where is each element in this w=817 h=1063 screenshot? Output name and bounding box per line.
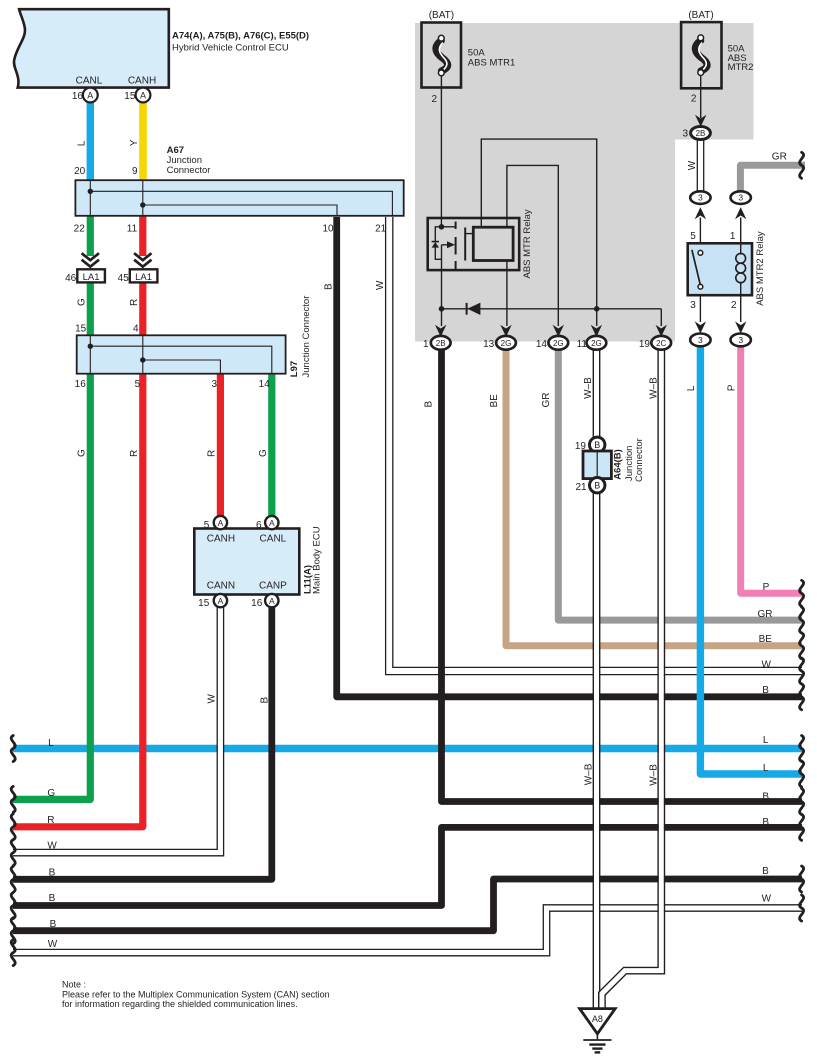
svg-text:CANH: CANH xyxy=(207,534,235,545)
svg-text:2G: 2G xyxy=(553,339,564,348)
svg-text:14: 14 xyxy=(259,379,271,390)
svg-text:CANP: CANP xyxy=(259,580,287,591)
svg-text:CANL: CANL xyxy=(76,75,103,86)
svg-text:G: G xyxy=(77,449,88,457)
svg-text:W–B: W–B xyxy=(648,377,659,399)
wire Y yellow: ECU CANH pin to A67 xyxy=(139,101,147,183)
svg-text:A: A xyxy=(140,90,146,100)
svg-text:A: A xyxy=(218,518,224,528)
svg-text:B: B xyxy=(260,697,271,704)
ABS MTR Relay box xyxy=(428,218,520,270)
svg-text:13: 13 xyxy=(483,339,495,350)
svg-text:(BAT): (BAT) xyxy=(429,10,454,21)
svg-text:R: R xyxy=(207,450,218,457)
connector oval 3 (right, under GR) xyxy=(731,191,751,204)
wire W white: L11 CANN pin down to left bus xyxy=(13,607,220,852)
svg-text:BE: BE xyxy=(759,634,773,645)
svg-text:21: 21 xyxy=(575,482,587,493)
svg-text:LA1: LA1 xyxy=(83,272,100,283)
svg-text:16: 16 xyxy=(251,598,263,609)
svg-text:W: W xyxy=(761,660,771,671)
arrows down into ovals 3 xyxy=(695,321,706,333)
wire B black: L11 CANP pin down to left bus xyxy=(13,607,272,879)
wire R red: LA1 to L97 pin4 xyxy=(139,283,146,338)
connector oval 3 (L output) xyxy=(690,334,710,347)
main body ECU L11(A) box xyxy=(194,529,299,595)
svg-text:5: 5 xyxy=(135,379,141,390)
connector 3 2B oval xyxy=(691,127,711,140)
svg-text:2B: 2B xyxy=(696,129,706,138)
svg-text:2: 2 xyxy=(731,300,737,311)
wire W white: A67 pin21 down then right bus xyxy=(389,217,802,671)
wire W-B: connector 19 2C down, jog left to ground xyxy=(602,350,661,1009)
svg-text:R: R xyxy=(129,299,140,306)
junction connector A67 bar xyxy=(75,180,403,216)
wire W white: left bus via riser to right bus xyxy=(13,908,802,953)
svg-text:BE: BE xyxy=(489,394,500,408)
svg-text:L: L xyxy=(686,385,697,391)
svg-text:3: 3 xyxy=(698,335,703,345)
wire B black: left bus via riser to right bus xyxy=(13,827,802,905)
ground A8 xyxy=(580,1009,616,1034)
svg-text:R: R xyxy=(129,450,140,457)
svg-text:Hybrid Vehicle Control ECU: Hybrid Vehicle Control ECU xyxy=(172,43,289,54)
wire L blue: ECU CANL pin to A67 xyxy=(87,101,94,183)
svg-text:W: W xyxy=(48,939,58,950)
svg-text:B: B xyxy=(424,401,435,408)
svg-text:GR: GR xyxy=(758,609,773,620)
svg-text:ABS MTR1: ABS MTR1 xyxy=(468,57,516,68)
svg-text:3: 3 xyxy=(738,193,743,203)
svg-text:4: 4 xyxy=(133,323,139,334)
svg-text:MTR2: MTR2 xyxy=(728,62,754,73)
wire G green: L97 pin16 down to left bus xyxy=(13,374,90,799)
svg-text:Connector: Connector xyxy=(634,438,645,482)
right edge squiggles xyxy=(800,152,804,921)
diode xyxy=(466,303,468,315)
wire L (blue) full-width horizontal bus xyxy=(13,745,802,752)
pin 16 A xyxy=(83,88,98,103)
svg-text:L: L xyxy=(763,735,769,746)
arrows down into bottom connector ovals xyxy=(435,325,446,337)
wire B black: left bus via riser to right bus 2 xyxy=(13,879,802,931)
connector 1 2B xyxy=(431,336,451,350)
svg-text:B: B xyxy=(762,817,769,828)
relay driver inner box xyxy=(473,227,513,260)
svg-text:W: W xyxy=(206,694,217,704)
svg-text:A74(A), A75(B), A76(C), E55(D): A74(A), A75(B), A76(C), E55(D) xyxy=(172,31,309,42)
svg-text:A: A xyxy=(269,518,275,528)
svg-text:A64(B): A64(B) xyxy=(613,449,624,480)
wire fuse2 down xyxy=(700,75,702,118)
svg-text:B: B xyxy=(594,440,600,450)
svg-text:Connector: Connector xyxy=(167,165,211,176)
svg-text:L: L xyxy=(48,738,54,749)
wire GR gray: connector 14 2G down then right bus xyxy=(558,350,802,620)
relay switch xyxy=(698,250,703,255)
wire B black: connector 1 2B down then right bus xyxy=(442,350,803,802)
connector 19 2C xyxy=(651,336,671,350)
svg-text:W–B: W–B xyxy=(583,763,594,785)
svg-text:14: 14 xyxy=(536,339,548,350)
svg-text:16: 16 xyxy=(72,91,84,102)
svg-text:GR: GR xyxy=(541,393,552,408)
svg-text:ABS MTR2 Relay: ABS MTR2 Relay xyxy=(755,231,766,306)
svg-text:Note :: Note : xyxy=(62,979,86,989)
svg-text:6: 6 xyxy=(256,520,262,531)
svg-text:W: W xyxy=(375,280,386,290)
svg-text:5: 5 xyxy=(690,231,696,242)
svg-text:B: B xyxy=(49,893,56,904)
ABS MTR relay internal wiring xyxy=(481,139,596,326)
svg-text:for information regarding the: for information regarding the shielded c… xyxy=(62,999,298,1009)
svg-text:B: B xyxy=(762,685,769,696)
svg-text:A8: A8 xyxy=(592,1014,603,1024)
shield chevrons 46 LA1 xyxy=(82,253,99,267)
svg-text:2C: 2C xyxy=(656,339,666,348)
shaded relay block region xyxy=(415,23,754,342)
wire GR gray: top right to MTR2 relay connector xyxy=(740,165,805,191)
svg-text:Junction Connector: Junction Connector xyxy=(301,296,312,378)
svg-text:G: G xyxy=(47,788,55,799)
svg-text:15: 15 xyxy=(198,598,210,609)
pin 5 A xyxy=(214,516,227,529)
connector 14 2G xyxy=(548,336,568,350)
svg-text:3: 3 xyxy=(738,335,743,345)
arrows up into ovals 3 xyxy=(695,207,706,219)
svg-text:L: L xyxy=(763,763,769,774)
svg-text:G: G xyxy=(258,449,269,457)
relay coil xyxy=(740,243,742,254)
wire R red: L97 pin3 to L11 CANH xyxy=(217,372,224,517)
svg-text:3: 3 xyxy=(698,193,703,203)
svg-text:CANL: CANL xyxy=(260,534,287,545)
svg-text:3: 3 xyxy=(682,129,688,140)
wire B black: A67 pin10 down then right bus xyxy=(337,217,802,697)
svg-text:W–B: W–B xyxy=(649,764,660,786)
svg-text:2: 2 xyxy=(691,93,697,104)
svg-text:21: 21 xyxy=(375,224,387,235)
svg-text:(BAT): (BAT) xyxy=(688,10,713,21)
svg-text:W: W xyxy=(762,893,772,904)
wire BE tan: connector 13 2G down then right bus xyxy=(506,350,802,646)
svg-text:46: 46 xyxy=(65,273,77,284)
svg-text:2: 2 xyxy=(431,94,437,105)
svg-text:P: P xyxy=(727,384,738,391)
svg-text:B: B xyxy=(324,283,335,290)
junction connector A64(B) xyxy=(590,437,605,452)
connector 13 2G xyxy=(496,336,516,350)
svg-text:B: B xyxy=(762,791,769,802)
connector oval 3 (P output) xyxy=(731,334,751,347)
left edge squiggles xyxy=(11,736,15,966)
svg-text:20: 20 xyxy=(74,166,86,177)
svg-text:Y: Y xyxy=(129,139,140,146)
svg-text:B: B xyxy=(594,481,600,491)
pin 15 A xyxy=(136,88,151,103)
svg-text:ABS MTR Relay: ABS MTR Relay xyxy=(522,209,533,278)
svg-text:GR: GR xyxy=(772,152,787,163)
wire G green: A67 pin22 to LA1 shield xyxy=(87,214,94,256)
svg-text:R: R xyxy=(47,815,54,826)
svg-text:22: 22 xyxy=(74,224,86,235)
svg-text:3: 3 xyxy=(211,379,217,390)
Hybrid Vehicle Control ECU box A74/A75/A76/E55 xyxy=(14,9,169,87)
svg-text:LA1: LA1 xyxy=(135,272,152,283)
svg-text:19: 19 xyxy=(639,339,651,350)
diode bus line xyxy=(442,308,662,310)
wire R red: L97 pin5 down to left bus xyxy=(13,374,143,827)
svg-text:W–B: W–B xyxy=(583,377,594,399)
pin 6 A xyxy=(265,516,278,529)
connector 11 2G xyxy=(587,336,607,350)
svg-text:2G: 2G xyxy=(591,339,602,348)
svg-text:10: 10 xyxy=(322,224,334,235)
arrow into 2B xyxy=(695,115,706,127)
svg-text:G: G xyxy=(77,298,88,306)
pin 15 A xyxy=(214,594,227,607)
wire G green: L97 pin14 to L11 CANL xyxy=(268,372,275,517)
wire L blue: MTR2 relay output down then right bus xyxy=(700,346,802,774)
wire W white: fuse 2B connector down to relay connector 3 xyxy=(698,140,703,192)
svg-text:15: 15 xyxy=(124,91,136,102)
svg-text:A: A xyxy=(87,90,93,100)
svg-text:A: A xyxy=(269,596,275,606)
svg-text:2B: 2B xyxy=(436,339,446,348)
svg-text:9: 9 xyxy=(132,166,138,177)
pin 16 A xyxy=(265,594,278,607)
svg-text:L97: L97 xyxy=(289,361,300,377)
ABS MTR2 relay box xyxy=(688,243,752,295)
svg-text:5: 5 xyxy=(204,520,210,531)
shield chevrons 45 LA1 xyxy=(134,253,151,267)
svg-text:11: 11 xyxy=(127,224,138,235)
svg-text:B: B xyxy=(762,866,769,877)
svg-text:B: B xyxy=(50,919,57,930)
svg-text:15: 15 xyxy=(75,323,87,334)
MOSFET body diode xyxy=(435,227,441,242)
svg-text:2G: 2G xyxy=(501,339,512,348)
MOSFET symbol xyxy=(439,224,445,230)
wires arrows to relay top xyxy=(699,218,701,244)
relay bottom wires xyxy=(699,295,701,322)
svg-text:P: P xyxy=(763,582,770,593)
svg-text:W: W xyxy=(47,841,57,852)
svg-text:L: L xyxy=(77,140,88,146)
svg-text:CANN: CANN xyxy=(207,580,235,591)
connector oval 3 (left, under W) xyxy=(690,191,710,204)
wire fuse1 to relay xyxy=(440,76,442,227)
svg-text:16: 16 xyxy=(75,379,87,390)
svg-text:1: 1 xyxy=(423,339,429,350)
svg-text:3: 3 xyxy=(690,300,696,311)
svg-text:11: 11 xyxy=(577,339,588,350)
junction connector L97 bar xyxy=(77,335,286,373)
wire G green: LA1 to L97 pin15 xyxy=(87,283,94,338)
svg-text:A: A xyxy=(218,596,224,606)
svg-text:Main Body ECU: Main Body ECU xyxy=(312,526,323,594)
svg-text:B: B xyxy=(49,868,56,879)
wire P pink: MTR2 relay output down then right bus xyxy=(741,346,802,593)
wire R red: A67 pin11 to LA1 shield xyxy=(139,214,146,256)
svg-text:1: 1 xyxy=(730,231,736,242)
svg-text:W: W xyxy=(687,160,698,170)
wire W-B: connector 11 2G down through A64(B) to ground xyxy=(594,350,599,438)
svg-text:CANH: CANH xyxy=(128,75,156,86)
svg-text:45: 45 xyxy=(118,273,130,284)
